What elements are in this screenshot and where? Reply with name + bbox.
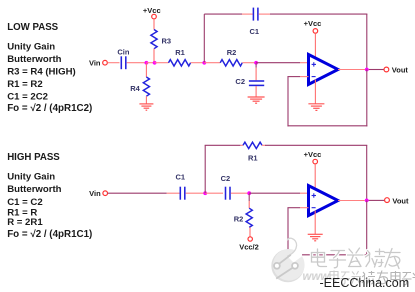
watermark logo swoosh	[287, 235, 302, 262]
svg-text:C1 = C2: C1 = C2	[7, 197, 42, 208]
capacitor C1 (high pass)	[180, 187, 185, 200]
svg-text:Butterworth: Butterworth	[7, 54, 61, 65]
svg-text:R3: R3	[162, 37, 172, 46]
wire +Vcc to R3	[153, 19, 155, 30]
wire node F to C2 (high pass)	[205, 192, 223, 194]
op-amp U1 (low pass)	[309, 55, 339, 85]
node F junction (R1 feedback tap)	[203, 191, 207, 195]
svg-text:Unity Gain: Unity Gain	[7, 42, 55, 53]
wire R1 to node C	[191, 62, 205, 64]
ground (below C2)	[248, 97, 265, 103]
capacitor C2 (low pass)	[249, 81, 264, 85]
svg-text:Fo = √2 / (4pR1C2): Fo = √2 / (4pR1C2)	[7, 103, 92, 114]
svg-text:-EECChina.com: -EECChina.com	[320, 276, 410, 290]
node C junction (C1 feedback tap)	[202, 61, 206, 65]
ground (below op-amp high pass)	[308, 234, 323, 241]
node G junction (R2 tap)	[247, 191, 251, 195]
node B junction (R3 tap)	[153, 61, 157, 65]
terminal +Vcc (R3 top)	[152, 14, 157, 19]
wire node E to Vout	[369, 69, 384, 71]
wire op-amp output to node E	[338, 69, 365, 71]
svg-text:Vout: Vout	[392, 196, 409, 205]
wire feedback left riser (high pass)	[287, 208, 289, 256]
watermark logo small circle left	[274, 263, 280, 269]
wire node H to Vout (high pass)	[369, 199, 385, 201]
wire Vin to Cin	[108, 62, 120, 64]
wire node D to C2	[255, 64, 257, 68]
svg-text:C2: C2	[221, 174, 231, 183]
node E output junction (low pass)	[365, 68, 369, 72]
watermark logo disc	[271, 249, 304, 282]
wire R1 to right rail (high pass)	[262, 144, 266, 146]
resistor R3	[151, 30, 157, 49]
svg-text:R1 = R2: R1 = R2	[7, 79, 42, 90]
wire R3 to node B	[153, 49, 155, 62]
op-amp U2 plus mark	[312, 193, 316, 197]
svg-text:R2: R2	[234, 215, 244, 224]
wire Cin to node A	[127, 62, 145, 64]
wire R2 to node D	[242, 62, 256, 64]
watermark large CJK text (fake glyph strokes, white underlay)	[312, 248, 401, 269]
svg-text:+Vcc: +Vcc	[143, 6, 161, 15]
wire feedback bottom run (high pass)	[287, 254, 367, 256]
svg-text:C1: C1	[250, 27, 260, 36]
op-amp U1 minus mark	[312, 76, 316, 78]
svg-text:Butterworth: Butterworth	[7, 184, 61, 195]
wire feedback into minus input	[287, 76, 300, 78]
svg-text:Vout: Vout	[392, 66, 409, 75]
wire node F riser to top (high pass)	[204, 145, 206, 193]
wire op-amp ground stem	[314, 80, 316, 104]
wire node C riser to top	[203, 14, 205, 63]
wire feedback bottom run	[287, 125, 367, 127]
watermark logo small circle right	[292, 263, 298, 269]
op-amp U1 plus mark	[312, 62, 316, 66]
wire right rail down to output node	[366, 14, 368, 69]
terminal Vout (low pass)	[384, 67, 389, 72]
wire Vin to C1 (high pass)	[108, 192, 167, 194]
wire node D to op-amp + input	[256, 62, 300, 64]
capacitor C1 (low pass)	[253, 8, 258, 21]
svg-text:R4: R4	[130, 84, 140, 93]
resistor R2 (high pass)	[246, 208, 252, 227]
ground (below op-amp low pass)	[308, 104, 324, 111]
wire node A to node B	[146, 62, 154, 64]
svg-text:Fo = √2 / (4pR1C1): Fo = √2 / (4pR1C1)	[7, 229, 92, 240]
node A junction (R4 tap)	[145, 61, 149, 65]
terminal Vout (high pass)	[385, 198, 390, 203]
resistor R4	[143, 77, 149, 96]
wire top run C1 to right rail	[270, 13, 367, 15]
wire R2 to Vcc/2 terminal	[249, 227, 251, 236]
resistor R2 (low pass)	[220, 60, 242, 66]
wire op-amp output to node H (high pass)	[338, 200, 365, 202]
svg-text:C1: C1	[176, 173, 186, 182]
wire top run to C1	[204, 13, 242, 15]
wire node B to R1	[155, 62, 169, 64]
op-amp U2 (high pass)	[309, 186, 339, 216]
watermark logo link lines	[279, 255, 290, 264]
svg-text:Vin: Vin	[89, 58, 101, 67]
svg-text:Vcc/2: Vcc/2	[239, 242, 259, 251]
svg-text:Vin: Vin	[89, 189, 101, 198]
node D junction (C2 tap)	[254, 61, 258, 65]
op-amp U2 minus mark	[312, 207, 316, 209]
wire feedback right rail down (high pass)	[366, 200, 368, 255]
wire +Vcc to op-amp top (high pass)	[314, 164, 316, 191]
svg-text:C1 = 2C2: C1 = 2C2	[7, 92, 48, 103]
wire R4 to ground	[145, 96, 147, 104]
wire C1 right stub	[259, 13, 270, 15]
wire C2 to ground	[255, 86, 257, 97]
svg-text:R1: R1	[248, 153, 258, 162]
capacitor C2 (high pass)	[226, 187, 231, 200]
wire top run to R1 (high pass)	[205, 144, 241, 146]
svg-text:+Vcc: +Vcc	[304, 19, 322, 28]
terminal +Vcc (op-amp high pass)	[313, 159, 318, 164]
terminal Vin (high pass)	[103, 191, 108, 196]
svg-text:LOW PASS: LOW PASS	[7, 22, 58, 33]
resistor R1 (low pass)	[169, 60, 191, 66]
wire node A to R4	[145, 64, 147, 78]
wire feedback into minus input (high pass)	[287, 207, 300, 209]
terminal Vcc/2	[248, 237, 252, 241]
svg-text:R = 2R1: R = 2R1	[7, 217, 43, 228]
wire node C to R2	[204, 62, 220, 64]
svg-text:HIGH PASS: HIGH PASS	[7, 152, 60, 163]
svg-text:R2: R2	[227, 48, 237, 57]
wire C1 left stub	[242, 13, 253, 15]
watermark middle line www + small CJK	[303, 271, 415, 286]
terminal +Vcc (op-amp low pass)	[313, 29, 318, 34]
terminal Vin (low pass)	[103, 60, 108, 65]
wire right rail down to output node (high pass)	[366, 145, 368, 200]
ground (below R4)	[139, 104, 153, 110]
wire feedback right rail down	[366, 70, 368, 127]
wire node G to op-amp + input (high pass)	[249, 192, 300, 194]
wire +Vcc to op-amp top	[314, 33, 316, 60]
wire node G to R2 (high pass)	[248, 194, 250, 201]
svg-text:Cin: Cin	[117, 48, 130, 57]
wire C2 to node G	[231, 192, 248, 194]
capacitor Cin	[121, 56, 126, 69]
wire op-amp ground stem (high pass)	[314, 211, 316, 235]
svg-text:C2: C2	[235, 77, 245, 86]
svg-text:R1: R1	[175, 48, 185, 57]
svg-text:R3 = R4 (HIGH): R3 = R4 (HIGH)	[7, 67, 76, 78]
node H output junction (high pass)	[365, 199, 369, 203]
wire feedback left riser	[287, 77, 289, 127]
svg-text:Unity Gain: Unity Gain	[7, 172, 55, 183]
wire C1 to node F	[186, 192, 204, 194]
resistor R1 (high pass)	[243, 142, 262, 148]
svg-text:+Vcc: +Vcc	[304, 150, 322, 159]
